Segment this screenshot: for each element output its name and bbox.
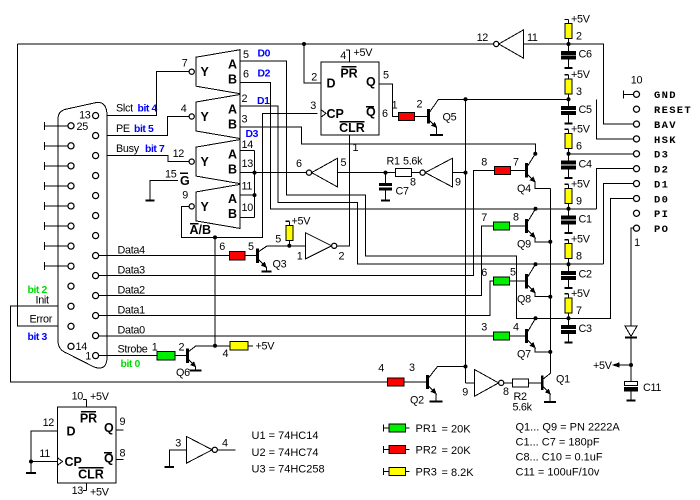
wire: mux gate4 pin 11 stub bbox=[240, 194, 255, 196]
svg-text:Y: Y bbox=[201, 155, 210, 169]
pin circle: DB25 right column #1 bbox=[93, 113, 99, 119]
svg-text:Q: Q bbox=[104, 421, 114, 435]
transistor Q4 bbox=[525, 163, 528, 177]
svg-text:3: 3 bbox=[242, 114, 248, 126]
svg-text:Data2: Data2 bbox=[118, 285, 146, 297]
svg-text:4: 4 bbox=[181, 103, 187, 115]
svg-text:2: 2 bbox=[417, 99, 423, 111]
svg-text:6: 6 bbox=[481, 267, 487, 279]
svg-text:C8... C10 = 0.1uF: C8... C10 = 0.1uF bbox=[516, 452, 603, 464]
svg-text:5: 5 bbox=[243, 49, 249, 61]
svg-text:8: 8 bbox=[513, 212, 519, 224]
resistor PR2 (4-3) Q2 base 20K bbox=[388, 378, 405, 386]
ground stub: DB25 left pin tie #7 bbox=[45, 245, 68, 247]
svg-text:Strobe: Strobe bbox=[118, 344, 148, 356]
svg-text:U1 = 74HC14: U1 = 74HC14 bbox=[252, 430, 319, 442]
power: +5V arrow feed bbox=[614, 364, 632, 366]
svg-text:6: 6 bbox=[296, 158, 302, 170]
wire: node6 to D3 output bbox=[569, 153, 634, 155]
svg-text:B: B bbox=[228, 207, 237, 221]
wire: Busy (pin 11) to mux gate3 input pin 12 bbox=[99, 156, 189, 162]
svg-text:Data4: Data4 bbox=[118, 245, 146, 257]
svg-text:15: 15 bbox=[165, 169, 177, 181]
transistor Q7 bbox=[525, 329, 528, 343]
pin circle: DB25 right column #8 bbox=[93, 253, 99, 259]
mux gate U3-3 output bubble bbox=[189, 159, 194, 164]
legend resistor PR3 bbox=[383, 468, 385, 475]
pin circle: DB25 right column #6 bbox=[93, 213, 99, 219]
node: junction Q3 collector / pullup / inverter input bbox=[287, 244, 291, 248]
svg-text:7: 7 bbox=[513, 157, 519, 169]
pin circle: D1 output bbox=[633, 181, 639, 187]
wire: PE (pin 12) to mux gate2 input pin 4 bbox=[99, 117, 189, 136]
svg-text:A: A bbox=[228, 192, 237, 206]
transistor Q1 bbox=[541, 376, 544, 390]
svg-text:PR2: PR2 bbox=[416, 445, 437, 457]
svg-text:PO: PO bbox=[654, 224, 669, 236]
svg-text:5.6k: 5.6k bbox=[513, 402, 533, 414]
svg-text:PR1: PR1 bbox=[416, 423, 437, 435]
resistor PR1 (6-5) Q8 base 20K bbox=[494, 277, 510, 285]
svg-text:+5V: +5V bbox=[571, 178, 591, 190]
svg-text:G: G bbox=[180, 174, 190, 188]
svg-text:PE: PE bbox=[116, 123, 130, 135]
svg-text:10: 10 bbox=[242, 202, 254, 214]
svg-text:D0: D0 bbox=[654, 194, 669, 206]
wire: Data2 line from DB25 to riser, up to Q9 base resistor bbox=[99, 226, 494, 296]
svg-text:13: 13 bbox=[242, 158, 254, 170]
svg-text:8: 8 bbox=[481, 157, 487, 169]
svg-text:C4: C4 bbox=[579, 158, 592, 170]
svg-text:Q: Q bbox=[104, 452, 114, 466]
svg-text:13: 13 bbox=[79, 110, 91, 122]
node: junction Q4 collector on D3 line bbox=[533, 152, 537, 156]
svg-text:6: 6 bbox=[243, 69, 249, 81]
ground: Q1 emitter bbox=[549, 394, 551, 402]
capacitor C3 180pF bbox=[568, 318, 570, 325]
svg-text:8: 8 bbox=[120, 448, 126, 460]
svg-text:C1: C1 bbox=[579, 213, 592, 225]
power: +5V stub U2b CLR pin 13 bbox=[86, 483, 88, 491]
transistor Q3 bbox=[256, 249, 259, 263]
svg-text:bit 4: bit 4 bbox=[138, 104, 158, 115]
pin circle: DB25 left column #4 bbox=[68, 183, 74, 189]
node: junction top wire to flip-flop D input bbox=[302, 42, 306, 46]
svg-text:B: B bbox=[228, 117, 237, 131]
svg-text:Data0: Data0 bbox=[118, 325, 146, 337]
svg-text:1: 1 bbox=[392, 100, 398, 112]
svg-text:B: B bbox=[228, 162, 237, 176]
resistor R1 5.6k bbox=[386, 172, 396, 174]
svg-text:Data1: Data1 bbox=[118, 305, 146, 317]
svg-text:2: 2 bbox=[179, 342, 185, 354]
diode D1 (PO isolation) bbox=[625, 326, 637, 336]
svg-text:2: 2 bbox=[242, 93, 248, 105]
resistor PR1 (7-8) Q9 base 20K bbox=[494, 222, 510, 230]
pin circle: DB25 left column #7 bbox=[68, 243, 74, 249]
pin stub: Q-bar output pin 8 bbox=[116, 459, 124, 461]
svg-text:Q4: Q4 bbox=[517, 183, 531, 195]
pin: CP input triangle bbox=[58, 458, 63, 465]
node: +5V supply node bbox=[629, 363, 633, 367]
power: +5V feed for pullup 6 bbox=[568, 129, 570, 133]
svg-text:Q7: Q7 bbox=[517, 349, 531, 361]
ground stub: DB25 left pin tie #1 bbox=[45, 125, 68, 127]
svg-text:PR3: PR3 bbox=[416, 467, 437, 479]
node: chain junction C4 bbox=[567, 152, 571, 156]
wire: A/B input tie bracket vertical bbox=[254, 151, 256, 218]
power: +5V feed for pullup 8 bbox=[568, 240, 570, 244]
svg-text:4: 4 bbox=[340, 50, 346, 62]
wire: Data4 line from DB25 to PR2 resistor bbox=[99, 255, 230, 257]
svg-text:HSK: HSK bbox=[654, 135, 677, 147]
inverter U1 (5-6) pointing left bbox=[312, 158, 338, 187]
wire: node to inverter U1-1 input bbox=[289, 245, 305, 247]
svg-text:6: 6 bbox=[382, 108, 388, 120]
mux gate U3-4 output bubble bbox=[189, 204, 194, 209]
ground stub: DB25 left pin tie #5 bbox=[45, 205, 68, 207]
ground: Q3 emitter bbox=[265, 267, 267, 271]
mux gate U3-4 (74HC258 section) body bbox=[196, 184, 240, 228]
svg-text:4: 4 bbox=[223, 348, 229, 360]
ground stub: DB25 left pin tie #4 bbox=[45, 185, 68, 187]
svg-text:1: 1 bbox=[634, 237, 640, 249]
mux gate U3-3 (74HC258 section) body bbox=[196, 140, 240, 184]
svg-text:Y: Y bbox=[201, 200, 210, 214]
svg-text:C1... C7 = 180pF: C1... C7 = 180pF bbox=[516, 437, 600, 449]
svg-text:3: 3 bbox=[409, 362, 415, 374]
wire: Q5 collector to chain node3 bbox=[439, 98, 569, 100]
svg-text:D: D bbox=[67, 425, 76, 439]
pin circle: DB25 right column #12 bbox=[93, 333, 99, 339]
wire: main vertical sense line (node3 to bottom inverter input) bbox=[465, 99, 467, 383]
svg-text:+5V: +5V bbox=[571, 69, 591, 81]
wire: Data1 line from DB25 to riser, up to Q8 base resistor bbox=[99, 281, 494, 316]
inverter U1-8 output bubble bbox=[420, 170, 425, 175]
svg-text:A: A bbox=[228, 58, 237, 72]
wire: mux gate4 output pin 9 around chip bottom up to U2 CP (pin 3) bbox=[182, 113, 318, 237]
resistor PR1 (3-4) Q7 base 20K bbox=[494, 332, 510, 340]
svg-text:D3: D3 bbox=[246, 129, 259, 140]
capacitor C6 180pF bbox=[568, 44, 570, 51]
inverter U1 (1-2) pointing right bbox=[306, 233, 332, 259]
inverter legend symbol U1 (3-4) bbox=[186, 436, 212, 463]
svg-text:A/B: A/B bbox=[190, 223, 212, 237]
svg-text:C11: C11 bbox=[643, 382, 661, 394]
svg-text:Q: Q bbox=[366, 75, 376, 89]
pin circle: DB25 left column #3 bbox=[68, 163, 74, 169]
wire: main vertical into bottom inverter input bbox=[466, 382, 475, 384]
pin circle: DB25 left column #2 bbox=[68, 143, 74, 149]
svg-text:4: 4 bbox=[378, 363, 384, 375]
power: +5V feed for pullup 7 bbox=[568, 294, 570, 298]
power: +5V pullup on Q3 collector (pin 5) bbox=[288, 241, 290, 246]
pin circle: DB25 left column #10 bbox=[68, 303, 74, 309]
resistor PR2 (8-7) Q4 base 20K bbox=[495, 166, 511, 174]
wire: Init net - from DB25 pin down left edge and along bottom to Q2 base resistor bbox=[11, 306, 388, 382]
wire: branch down to U2 D input (pin 2) bbox=[304, 44, 321, 83]
wire: node2 to BAV output bbox=[569, 44, 634, 124]
svg-text:5: 5 bbox=[341, 157, 347, 169]
node: junction D/CP tie bbox=[29, 460, 33, 464]
svg-text:2: 2 bbox=[576, 31, 582, 43]
svg-text:4: 4 bbox=[222, 438, 228, 450]
resistor R2 5.6k bbox=[504, 382, 513, 384]
inverter U1 (11-12) pointing left bbox=[499, 30, 524, 58]
legend inverter bubble bbox=[212, 447, 217, 452]
svg-text:1: 1 bbox=[152, 342, 158, 354]
transistor Q2 bbox=[426, 375, 429, 389]
svg-text:11: 11 bbox=[39, 448, 50, 460]
svg-text:9: 9 bbox=[455, 177, 461, 189]
svg-text:4: 4 bbox=[513, 322, 519, 334]
svg-text:5: 5 bbox=[510, 267, 516, 279]
svg-text:+5V: +5V bbox=[354, 47, 374, 59]
inverter output bubble bbox=[499, 380, 504, 385]
svg-text:D1: D1 bbox=[257, 96, 270, 107]
svg-text:11: 11 bbox=[242, 181, 253, 193]
svg-text:5: 5 bbox=[248, 241, 254, 253]
mux gate U3-2 output bubble bbox=[189, 114, 194, 119]
capacitor C7 bbox=[385, 173, 387, 184]
svg-text:11: 11 bbox=[527, 32, 538, 44]
pin stub: Q output pin 9 bbox=[116, 429, 124, 431]
pin circle: GND output bbox=[633, 91, 639, 97]
pin circle: DB25 right column #9 bbox=[93, 273, 99, 279]
resistor PR3 pullup pin 9 8.2K bbox=[565, 188, 572, 203]
capacitor C1 180pF bbox=[568, 209, 570, 216]
pin circle: DB25 left column #6 bbox=[68, 223, 74, 229]
svg-text:3: 3 bbox=[175, 438, 181, 450]
pin circle: DB25 left column #5 bbox=[68, 203, 74, 209]
svg-text:CP: CP bbox=[327, 107, 344, 121]
pin circle: PO output bbox=[633, 225, 639, 231]
power: +5V feed for pullup 9 bbox=[568, 184, 570, 188]
svg-text:D3: D3 bbox=[654, 150, 669, 162]
svg-text:Y: Y bbox=[201, 110, 210, 124]
svg-text:8: 8 bbox=[503, 386, 509, 398]
svg-text:Y: Y bbox=[201, 65, 210, 79]
svg-text:9: 9 bbox=[462, 387, 468, 399]
svg-text:+5V: +5V bbox=[292, 216, 312, 228]
svg-text:9: 9 bbox=[576, 195, 582, 207]
pin circle: DB25 right column #4 bbox=[93, 173, 99, 179]
svg-text:10: 10 bbox=[72, 391, 84, 403]
inverter U1-12 output bubble bbox=[494, 41, 499, 46]
svg-text:Q1... Q9 = PN 2222A: Q1... Q9 = PN 2222A bbox=[516, 422, 621, 434]
svg-text:Q3: Q3 bbox=[273, 259, 287, 271]
wire: mux gate4 pin 10 stub to bracket bbox=[240, 217, 255, 219]
svg-text:12: 12 bbox=[173, 148, 185, 160]
ground: U2b CP/D tie bbox=[30, 462, 32, 474]
svg-text:6: 6 bbox=[576, 140, 582, 152]
resistor PR2 (6-5) Q3 base 20K bbox=[230, 252, 246, 260]
resistor PR3 pullup pin 3 8.2K bbox=[565, 79, 572, 94]
mux gate U3-2 (74HC258 section) body bbox=[196, 95, 240, 139]
svg-text:+5V: +5V bbox=[593, 360, 613, 372]
svg-text:8: 8 bbox=[410, 177, 416, 189]
svg-text:9: 9 bbox=[182, 190, 188, 202]
capacitor C2 180pF bbox=[568, 264, 570, 271]
wire: node8 extension to D1 output bbox=[604, 184, 634, 265]
capacitor C5 180pF bbox=[568, 99, 570, 106]
svg-text:CLR: CLR bbox=[78, 468, 104, 482]
svg-text:3: 3 bbox=[310, 100, 316, 112]
pin circle: DB25 right column #7 bbox=[93, 233, 99, 239]
svg-text:7: 7 bbox=[182, 58, 188, 70]
svg-text:= 20K: = 20K bbox=[442, 445, 472, 457]
power: +5V stub to U2a PR pin 4 bbox=[349, 50, 351, 62]
ground: Q2 emitter bbox=[435, 394, 437, 402]
ground: Q5 emitter bbox=[436, 127, 438, 135]
svg-text:7: 7 bbox=[576, 305, 582, 317]
node: chain junction C6 bbox=[567, 42, 571, 46]
svg-text:C2: C2 bbox=[579, 269, 592, 281]
transistor Q6 bbox=[186, 348, 189, 362]
svg-text:C3: C3 bbox=[579, 323, 592, 335]
pin circle: HSK output bbox=[633, 136, 639, 142]
pin circle: DB25 left column #12 bbox=[68, 343, 74, 349]
mux gate U3-1 (74HC258 section) body bbox=[196, 50, 240, 94]
pin circle: DB25 right column #3 bbox=[93, 153, 99, 159]
svg-text:CLR: CLR bbox=[339, 121, 365, 135]
transistor Q9 bbox=[525, 219, 528, 233]
wire: node7 extension to D0 output bbox=[569, 199, 634, 319]
node: chain junction C1 bbox=[567, 207, 571, 211]
svg-text:2: 2 bbox=[311, 72, 317, 84]
svg-text:+5V: +5V bbox=[571, 123, 591, 135]
svg-text:5: 5 bbox=[383, 70, 389, 82]
legend resistor PR2 bbox=[383, 446, 385, 453]
svg-text:+5V: +5V bbox=[256, 341, 276, 353]
svg-text:12: 12 bbox=[43, 417, 55, 429]
pin circle: DB25 right column #13 bbox=[93, 353, 99, 359]
ground stub: GND pin tie bbox=[624, 93, 634, 95]
pin: CP input triangle bbox=[321, 110, 326, 117]
wire: riser from gate4 output net down to Q6 collector node bbox=[214, 237, 216, 345]
svg-text:bit 3: bit 3 bbox=[28, 332, 48, 343]
svg-text:D2: D2 bbox=[654, 165, 669, 177]
ground stub: DB25 left pin tie #3 bbox=[45, 165, 68, 167]
pin circle: D3 output bbox=[633, 151, 639, 157]
node: junction bracket / pin11 line bbox=[253, 193, 257, 197]
svg-text:bit 7: bit 7 bbox=[145, 144, 165, 155]
resistor PR3 (4) Q6 collector pullup 8.2K bbox=[230, 342, 248, 350]
pin circle: D2 output bbox=[633, 166, 639, 172]
svg-text:PI: PI bbox=[654, 209, 669, 221]
svg-text:C5: C5 bbox=[579, 104, 592, 116]
svg-text:13: 13 bbox=[72, 485, 84, 497]
svg-text:3: 3 bbox=[481, 322, 487, 334]
svg-text:C6: C6 bbox=[579, 49, 592, 61]
flip-flop U2b 74HC74 body bbox=[58, 407, 117, 483]
svg-text:R1: R1 bbox=[387, 156, 400, 168]
wire: mux gate3 pin 14 stub to A/B tie bracket bbox=[240, 150, 255, 152]
node: junction Q7 emitter / Q1 collector bbox=[548, 350, 552, 354]
wire: legend inverter output stub bbox=[217, 449, 235, 451]
svg-text:PR: PR bbox=[340, 67, 357, 81]
wire: inverter output to CLR riser bbox=[337, 245, 350, 247]
svg-text:5.6k: 5.6k bbox=[403, 156, 423, 168]
capacitor C11 100uF electrolytic bbox=[625, 382, 638, 386]
svg-text:bit 0: bit 0 bbox=[121, 359, 141, 370]
svg-text:RESET: RESET bbox=[654, 105, 692, 117]
svg-text:5: 5 bbox=[275, 234, 281, 246]
svg-text:Q9: Q9 bbox=[517, 239, 531, 251]
svg-text:Error: Error bbox=[30, 314, 53, 326]
wire: left edge vertical down to Error pin bbox=[18, 44, 69, 326]
node: junction bracket / pin13 line bbox=[253, 171, 257, 175]
resistor PR2 (1-2) Q5 base 20K bbox=[399, 112, 415, 120]
svg-text:Init: Init bbox=[36, 295, 50, 307]
connector: DB25 parallel port shell bbox=[58, 102, 107, 368]
ground: G-bar enable tie bbox=[150, 180, 178, 200]
legend resistor PR1 bbox=[383, 424, 385, 431]
svg-text:25: 25 bbox=[77, 121, 89, 133]
wire: inverter 9 input from main vertical bbox=[453, 172, 466, 174]
node: junction Q8 emitter on stack bbox=[548, 295, 552, 299]
svg-text:Q6: Q6 bbox=[176, 367, 190, 379]
svg-text:Data3: Data3 bbox=[118, 265, 146, 277]
node: junction Q8 collector on D1 line bbox=[534, 262, 538, 266]
svg-text:8: 8 bbox=[576, 251, 582, 263]
node: junction vertical / U1-9 inverter input bbox=[464, 171, 468, 175]
transistor Q5 bbox=[427, 109, 430, 123]
wire: U2b D tied to CP bbox=[31, 431, 58, 462]
wire: node9 extension to D2 output bbox=[597, 169, 634, 209]
wire: U2a CLR pin 1 riser down to inverter U1-2 output bbox=[349, 135, 351, 246]
wire: mux pin 13 line to inverter U1-6 output bbox=[240, 172, 306, 174]
wire: inverter input to RC node bbox=[338, 172, 386, 174]
node: junction vertical / Q2 collector bbox=[464, 365, 468, 369]
svg-text:9: 9 bbox=[120, 416, 126, 428]
pin circle: PI output bbox=[633, 210, 639, 216]
svg-text:= 8.2K: = 8.2K bbox=[442, 467, 475, 479]
wire: D3 net - mux pin 3 jog over to Q4 collector node (D3 line) bbox=[240, 127, 535, 154]
svg-text:6: 6 bbox=[219, 241, 225, 253]
wire: Data0 line from DB25 straight to Q7 base resistor bbox=[99, 335, 494, 337]
node: junction Q6 collector / riser bbox=[213, 344, 217, 348]
svg-text:Q5: Q5 bbox=[443, 112, 457, 124]
power: +5V stub U2b PR pin 10 bbox=[86, 400, 88, 408]
node: chain junction C2 bbox=[567, 262, 571, 266]
wire: PO to diode bbox=[631, 228, 634, 326]
node: junction Q7 collector on D0/node7 line bbox=[534, 316, 538, 320]
svg-text:bit 5: bit 5 bbox=[134, 124, 154, 135]
inverter U1 (9-8) pointing left bbox=[425, 158, 452, 187]
pin circle: DB25 left column #1 bbox=[68, 123, 74, 129]
wire: D2 net - mux pin 6 to node9 line (D2 line) bbox=[240, 82, 597, 208]
inverter U1-6 output bubble bbox=[306, 170, 311, 175]
pin circle: D0 output bbox=[633, 195, 639, 201]
node: junction Q5 collector / main vertical bbox=[464, 97, 468, 101]
svg-text:+5V: +5V bbox=[90, 487, 110, 499]
svg-text:D2: D2 bbox=[258, 68, 271, 79]
pin circle: DB25 right column #11 bbox=[93, 313, 99, 319]
wire: resistor to Q5 base bbox=[415, 115, 428, 117]
svg-text:1: 1 bbox=[85, 351, 91, 363]
svg-text:+5V: +5V bbox=[571, 288, 591, 300]
wire: Data3 line from DB25 to riser, up to Q4 base resistor bbox=[99, 170, 495, 275]
ground stub: DB25 left pin tie #2 bbox=[45, 145, 68, 147]
svg-text:Q8: Q8 bbox=[517, 294, 531, 306]
node: junction gate4 output to Q6 collector riser bbox=[213, 235, 217, 239]
pin circle: DB25 left column #9 bbox=[68, 283, 74, 289]
inverter U1-2 output bubble bbox=[332, 243, 337, 248]
pin circle: DB25 right column #2 bbox=[93, 133, 99, 139]
pin circle: RESET output bbox=[633, 106, 639, 112]
svg-text:U2 = 74HC74: U2 = 74HC74 bbox=[252, 447, 319, 459]
